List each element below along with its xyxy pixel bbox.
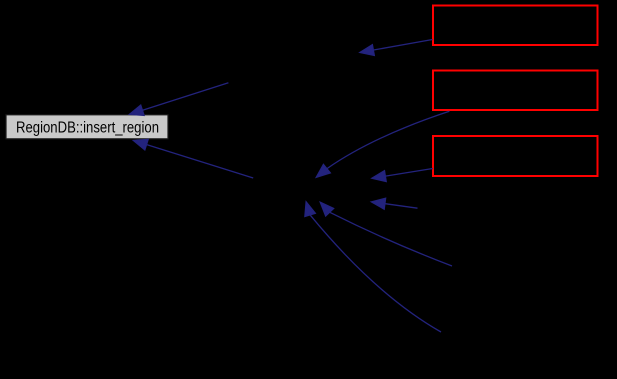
edge E5: caller box 3 -> hidden node B (line + arrowhead) bbox=[372, 169, 433, 182]
edge E1: hidden caller A -> insert_region (line + arrowhead at grey box top) bbox=[129, 83, 228, 116]
caller box 3 (red, truncated node) bbox=[433, 136, 598, 176]
svg-text:RegionDB::insert_region: RegionDB::insert_region bbox=[16, 119, 159, 136]
node RegionDB::insert_region (current function, grey box) bbox=[6, 115, 168, 139]
caller box 2 (red, truncated node) bbox=[433, 71, 598, 111]
caller box 1 (red, truncated node) bbox=[433, 6, 598, 46]
edge E8: hidden caller E (bottom) -> hidden node (curve + arrowhead) bbox=[320, 202, 452, 266]
edge E2: hidden caller B -> insert_region (line + arrowhead at grey box bottom) bbox=[133, 139, 253, 178]
edge E4: caller box 2 -> hidden node B (curved line + arrowhead) bbox=[316, 111, 449, 177]
edge E3: caller box 1 -> hidden node A (line + arrowhead) bbox=[360, 40, 433, 56]
edge E7: hidden caller D (bottom) -> hidden node (long curve + arrowhead) bbox=[305, 202, 441, 333]
edge E6: hidden caller C -> hidden node (short line + arrowhead) bbox=[371, 198, 418, 209]
